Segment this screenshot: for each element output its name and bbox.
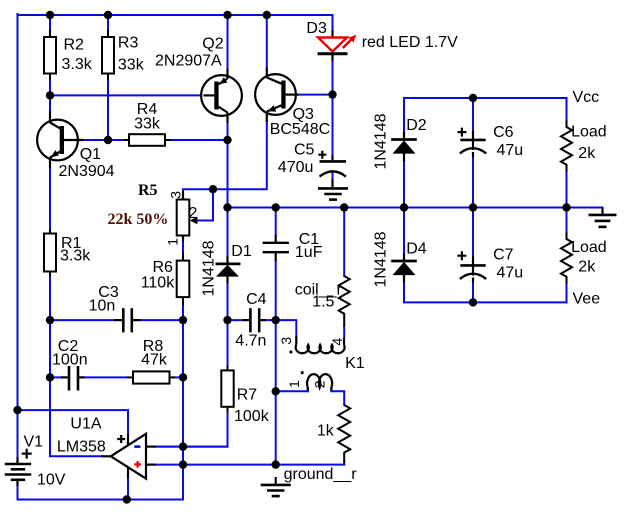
svg-text:C4: C4 — [246, 291, 267, 308]
svg-text:C6: C6 — [493, 124, 514, 141]
svg-text:3: 3 — [278, 337, 294, 345]
transistor Q3 — [255, 68, 298, 123]
LED D3 — [318, 30, 357, 61]
wire R4 right to Q2 collector column — [170, 139, 228, 141]
svg-text:R3: R3 — [118, 35, 139, 52]
diode D4 — [391, 254, 417, 283]
svg-text:2: 2 — [311, 380, 327, 388]
node rail D1 — [223, 203, 231, 211]
wire K1 pin1 stub — [307, 388, 309, 391]
wire Q3 base to LED column — [298, 94, 333, 96]
diode D2 — [391, 132, 417, 162]
wire R8 right to R6 column — [175, 376, 184, 378]
svg-text:Q2: Q2 — [202, 36, 223, 53]
svg-text:D3: D3 — [306, 20, 327, 37]
wire coil_r gap to K1 pin4 — [343, 326, 345, 337]
svg-text:C7: C7 — [493, 247, 514, 264]
wire Q2 emitter to top rail — [227, 15, 229, 70]
op-amp U1A — [102, 434, 156, 479]
node C4 right C1 — [272, 316, 280, 324]
resistor R8 — [128, 371, 176, 383]
svg-text:4.7n: 4.7n — [235, 333, 266, 350]
wire R3 bottom to Q1 base node — [107, 79, 109, 140]
node C3 right R6 — [179, 316, 187, 324]
wire D1 top from rail — [227, 208, 229, 257]
svg-text:BC548C: BC548C — [270, 121, 330, 138]
svg-text:V1: V1 — [24, 433, 44, 450]
svg-text:4: 4 — [329, 338, 345, 346]
svg-text:Load: Load — [571, 239, 607, 256]
wire R1 bottom through C3 C2 nodes to opamp output — [50, 276, 102, 457]
svg-text:1N4148: 1N4148 — [201, 240, 218, 296]
K1 secondary phase dot — [301, 371, 304, 374]
svg-text:2N2907A: 2N2907A — [155, 53, 222, 70]
svg-text:1uF: 1uF — [295, 244, 323, 261]
wire battery top node supply — [18, 410, 129, 435]
resistor 1k zigzag — [338, 405, 350, 463]
wire Load bottom to Vee rail — [566, 284, 568, 303]
svg-text:Vee: Vee — [573, 291, 601, 308]
wire top rail — [18, 14, 333, 16]
wire Vcc rail — [404, 97, 567, 99]
svg-text:C5: C5 — [294, 141, 315, 158]
svg-text:2k: 2k — [578, 258, 596, 275]
node top rail R2 — [46, 11, 54, 19]
svg-text:1: 1 — [164, 238, 180, 246]
wire coil_r top from rail — [343, 208, 345, 277]
transformer K1 secondary winding — [307, 374, 332, 390]
node top rail Q3 collector — [263, 11, 271, 19]
wire Q3 collector to top rail — [266, 15, 268, 69]
wire 1k bottom to noninv rail — [343, 462, 345, 465]
node ground_r — [272, 460, 280, 468]
wire R2 bottom to node — [49, 79, 51, 95]
wire R1 emitter column: Q1 emitter to R1 — [49, 167, 51, 231]
wire C6 bottom to rail — [472, 157, 474, 208]
capacitor C1 — [263, 235, 289, 261]
node Q1 base R3 R4 — [104, 136, 112, 144]
svg-text:47u: 47u — [497, 265, 524, 282]
svg-text:Vcc: Vcc — [573, 89, 600, 106]
wire C2 left from column — [50, 376, 62, 378]
wire C4 node to K1 pin3 — [276, 320, 297, 336]
node opamp vminus bottom rail — [123, 495, 131, 503]
wire C7 bottom to Vee rail — [472, 282, 474, 303]
svg-text:Load: Load — [571, 124, 607, 141]
node top rail Q2 emitter — [223, 11, 231, 19]
wire Q2 collector down to rail — [227, 122, 229, 208]
wire R5 wiper tap vertical — [198, 189, 213, 220]
wire C4 left node to R7 — [227, 320, 229, 365]
wire D4 top from rail — [403, 208, 405, 255]
svg-text:2k: 2k — [578, 145, 596, 162]
wire K1 pin1 horizontal — [276, 390, 308, 392]
svg-text:100k: 100k — [234, 408, 270, 425]
transformer K1 primary winding — [296, 336, 345, 353]
svg-text:470u: 470u — [278, 159, 314, 176]
wire node to C5 — [332, 95, 334, 156]
node R8 right — [179, 373, 187, 381]
node rail Load — [562, 203, 570, 211]
svg-text:110k: 110k — [141, 275, 176, 292]
svg-text:47k: 47k — [141, 352, 168, 369]
svg-text:3.3k: 3.3k — [62, 56, 93, 73]
wire R6 column through nodes down to bottom corner — [182, 320, 184, 499]
wire C2 to R8 — [84, 376, 128, 378]
capacitor C3 — [114, 308, 141, 332]
svg-text:D2: D2 — [406, 117, 427, 134]
svg-text:100n: 100n — [52, 352, 88, 369]
node Vcc rail C6 — [469, 94, 477, 102]
wire Load top bottom to rail — [566, 172, 568, 208]
node battery supply — [13, 406, 21, 414]
node top rail R3 — [104, 11, 112, 19]
svg-text:1N4148: 1N4148 — [373, 113, 390, 169]
svg-text:R7: R7 — [237, 387, 258, 404]
wire D2 top from Vcc corner — [403, 98, 405, 133]
wire C1 top from rail — [275, 208, 277, 236]
wire K1 pin1 node down to ground node — [275, 391, 277, 464]
wire Vee rail — [404, 301, 567, 303]
wire R5 pin1 to R6 — [182, 242, 184, 253]
wire bottom rail — [18, 486, 184, 500]
ground ground_r — [261, 477, 291, 496]
wire R7 bottom to inv node — [155, 412, 228, 447]
wire C1 bottom to C4 node — [275, 261, 277, 321]
wire R2 top stub — [49, 15, 51, 32]
node rail C7 — [469, 203, 477, 211]
K1 primary phase dot — [290, 351, 293, 354]
resistor R6 — [177, 253, 190, 306]
resistor Load top zigzag — [561, 120, 572, 173]
svg-text:LM358: LM358 — [57, 438, 106, 455]
wire LED cathode to Q3 base node — [332, 60, 334, 95]
node K1 pin1 — [272, 387, 280, 395]
svg-text:1k: 1k — [317, 422, 335, 439]
node rail D4 — [400, 203, 408, 211]
resistor Load bottom zigzag — [561, 232, 572, 284]
capacitor C2 — [61, 366, 85, 391]
resistor R1 — [44, 230, 56, 277]
transistor Q2 — [201, 69, 242, 124]
svg-text:K1: K1 — [345, 355, 365, 372]
wire C4 right lead wire — [263, 319, 276, 321]
svg-text:ground__r: ground__r — [284, 466, 358, 483]
wire R6 bottom to C3 node — [182, 305, 184, 321]
wire Load bottom from rail — [566, 208, 568, 233]
wire opamp noninv rail to 1k corner — [155, 464, 344, 466]
wire main mid rail — [228, 207, 603, 209]
wire R3 top stub — [107, 15, 109, 32]
wire D4 bottom to Vee rail — [403, 282, 405, 302]
wire D2 bottom to rail — [403, 161, 405, 208]
node C3 left — [46, 316, 54, 324]
wire opamp inv input to node — [155, 446, 228, 448]
diode D1 — [216, 256, 241, 284]
resistor R2 — [44, 30, 56, 80]
capacitor C4 — [243, 308, 266, 332]
wire D1 bottom to C4 node — [227, 283, 229, 320]
svg-text:U1A: U1A — [70, 416, 101, 433]
resistor R3 — [102, 30, 114, 80]
wire Q2 base from node — [50, 94, 204, 96]
svg-text:2N3904: 2N3904 — [59, 163, 115, 180]
wire C7 top from rail — [472, 208, 474, 258]
svg-text:47u: 47u — [497, 142, 524, 159]
transistor Q1 — [37, 112, 83, 169]
svg-text:3: 3 — [167, 191, 183, 199]
svg-text:R2: R2 — [64, 37, 85, 54]
svg-text:33k: 33k — [118, 56, 145, 73]
node R5 wiper tie — [209, 185, 217, 193]
svg-text:33k: 33k — [134, 116, 161, 133]
wire LED top from rail — [332, 15, 334, 31]
wire C5 inner gap — [332, 172, 334, 180]
node R4 Q2 collector — [223, 136, 231, 144]
node LED Q3 base — [328, 90, 336, 98]
node Vee rail C7 — [469, 298, 477, 306]
node rail coil_r — [340, 203, 348, 211]
capacitor C5 — [318, 151, 346, 187]
node Q1 collector R2 — [46, 91, 54, 99]
wire left border vertical — [17, 14, 19, 458]
svg-text:3.3k: 3.3k — [60, 248, 91, 265]
node C4 left D1 — [223, 316, 231, 324]
wire Q1 base to node — [83, 139, 108, 141]
wire Q3 emitter down and left to R5 — [183, 121, 267, 195]
svg-text:1: 1 — [286, 380, 302, 388]
svg-text:22k 50%: 22k 50% — [108, 211, 169, 228]
resistor R4 — [124, 134, 171, 146]
wire C4 node down to K1 pin1 node — [275, 320, 277, 391]
svg-text:10n: 10n — [89, 298, 116, 315]
wire R4 left lead — [108, 139, 125, 141]
wire C4 left lead wire — [228, 319, 245, 321]
battery V1 — [5, 449, 32, 486]
node C2 left — [46, 373, 54, 381]
node rail C1 — [272, 203, 280, 211]
svg-text:1.5: 1.5 — [312, 294, 334, 311]
wire C6 top from Vcc rail — [472, 98, 474, 132]
resistor coil_r 1.5 zigzag — [339, 276, 350, 327]
wire K1 pin2 jog to 1k — [331, 388, 344, 405]
svg-text:D4: D4 — [406, 241, 427, 258]
svg-text:2: 2 — [189, 205, 198, 222]
svg-text:D1: D1 — [231, 243, 252, 260]
node noninv input — [179, 460, 187, 468]
svg-text:10V: 10V — [37, 471, 66, 488]
wire opamp vminus pin to bottom rail — [127, 478, 129, 500]
svg-text:red LED 1.7V: red LED 1.7V — [362, 34, 458, 51]
ground right of mid rail — [589, 208, 617, 227]
wire Q1 collector — [49, 95, 51, 112]
ground below C5 — [318, 188, 348, 199]
svg-text:R5: R5 — [138, 182, 158, 199]
wire Load top from Vcc rail — [566, 98, 568, 120]
svg-text:1N4148: 1N4148 — [373, 231, 390, 287]
svg-text:Q1: Q1 — [80, 146, 101, 163]
capacitor C6 — [457, 128, 486, 157]
capacitor C7 — [457, 251, 486, 282]
potentiometer R5 — [177, 191, 198, 242]
wire C3 left from R1 column — [50, 319, 115, 321]
wire C3 right to R6 column — [136, 319, 183, 321]
node inv input — [179, 442, 187, 450]
resistor R7 — [221, 365, 233, 413]
